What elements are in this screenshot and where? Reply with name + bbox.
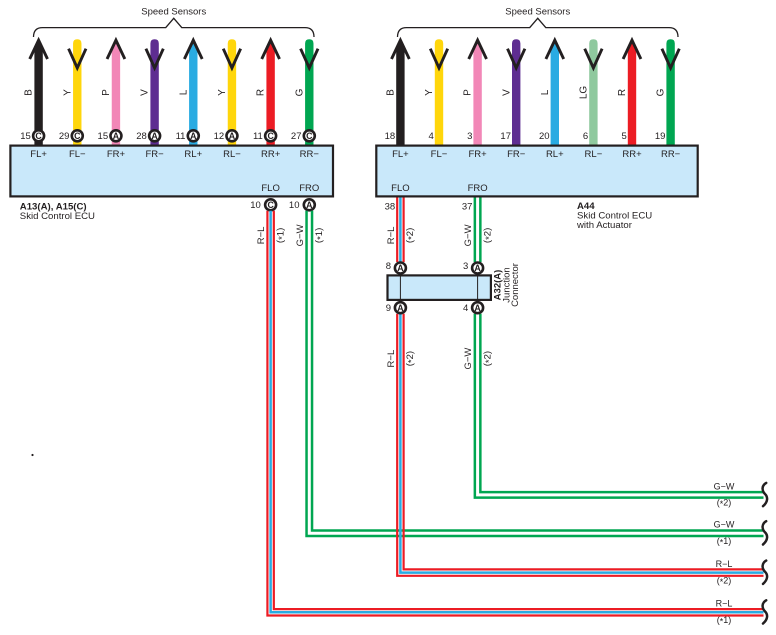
continuation squiggle at right edge of R-L (*2) wire	[763, 561, 768, 584]
svg-text:18: 18	[385, 131, 396, 142]
svg-text:G−W: G−W	[463, 224, 474, 246]
svg-text:R: R	[256, 89, 267, 96]
pin 37 right ECU FRO	[462, 201, 473, 212]
continuation squiggle at right edge of G-W (*2) wire	[763, 483, 768, 506]
svg-text:A: A	[474, 303, 481, 313]
svg-text:R−L: R−L	[256, 227, 267, 245]
wire: left speed sensor FR+ colour P	[101, 40, 125, 146]
svg-text:4: 4	[429, 131, 434, 142]
wire: right speed sensor RL+ colour L	[540, 40, 564, 146]
svg-text:28: 28	[136, 131, 147, 142]
svg-text:G: G	[656, 88, 667, 96]
pin 12(A) left ECU RL-	[214, 130, 238, 142]
svg-text:(*1): (*1)	[275, 228, 287, 243]
ECU A44 Skid Control ECU with Actuator box	[376, 146, 697, 197]
svg-text:A: A	[306, 200, 313, 210]
svg-text:RL+: RL+	[184, 149, 202, 160]
label: R-L (*2) at right edge	[716, 559, 733, 587]
svg-text:8: 8	[386, 261, 391, 272]
wire: R-L (*2) from right ECU pin 38 to junction pin 8	[397, 198, 403, 263]
svg-text:17: 17	[500, 131, 511, 142]
pin 29(C) left ECU FL-	[59, 130, 83, 142]
continuation squiggle at right edge of R-L (*1) wire	[763, 600, 768, 623]
svg-text:A: A	[190, 131, 197, 141]
svg-text:C: C	[267, 131, 274, 141]
svg-text:G−W: G−W	[714, 520, 735, 530]
label: G-W (*2) lower wire	[463, 348, 494, 370]
svg-text:FR−: FR−	[146, 149, 165, 160]
svg-text:FL−: FL−	[431, 149, 448, 160]
wire: right speed sensor FR- colour V	[501, 39, 525, 146]
svg-text:9: 9	[386, 303, 391, 314]
label: R-L (*1) on left FLO wire	[256, 227, 287, 245]
svg-text:FR+: FR+	[468, 149, 487, 160]
svg-text:(*2): (*2)	[717, 498, 732, 509]
continuation squiggle at right edge of G-W (*1) wire	[763, 521, 768, 544]
wire: left speed sensor FL- colour Y	[62, 39, 86, 146]
svg-text:4: 4	[463, 303, 468, 314]
pin 9(A) junction bottom left	[386, 302, 406, 314]
svg-text:A: A	[474, 263, 481, 273]
wire: right speed sensor FR+ colour P	[463, 40, 487, 146]
svg-text:R−L: R−L	[386, 227, 397, 245]
svg-text:FRO: FRO	[468, 183, 488, 194]
label: A32(A) Junction Connector	[493, 263, 522, 307]
wire: left speed sensor FR- colour V	[140, 39, 164, 146]
svg-text:R−L: R−L	[716, 559, 733, 569]
wire: G-W (*2) from right ECU pin 37 to junction pin 3	[475, 198, 481, 263]
pin 3(A) junction top right	[463, 261, 483, 274]
svg-text:RR−: RR−	[661, 149, 681, 160]
svg-text:V: V	[501, 89, 512, 96]
svg-text:10: 10	[289, 200, 300, 211]
pin 4(A) junction bottom right	[463, 302, 483, 314]
svg-text:G−W: G−W	[463, 348, 474, 370]
wire: right speed sensor FL- colour Y	[424, 39, 448, 146]
svg-text:3: 3	[467, 131, 472, 142]
svg-text:Y: Y	[424, 89, 435, 96]
stray dot (period) left margin	[31, 454, 33, 456]
svg-text:Y: Y	[217, 89, 228, 96]
pin 8(A) junction top left	[386, 261, 406, 274]
label: A13(A), A15(C) Skid Control ECU	[20, 201, 95, 222]
pin 28(A) left ECU FR-	[136, 130, 160, 142]
wire: left speed sensor RR+ colour R	[256, 40, 280, 146]
wire: left speed sensor RL- colour Y	[217, 39, 241, 146]
svg-text:A: A	[151, 131, 158, 141]
svg-text:(*2): (*2)	[717, 575, 732, 586]
svg-text:B: B	[386, 89, 397, 96]
svg-text:20: 20	[539, 131, 550, 142]
svg-text:(*1): (*1)	[314, 228, 326, 243]
svg-text:RR−: RR−	[300, 149, 320, 160]
svg-text:Speed Sensors: Speed Sensors	[505, 7, 570, 18]
pin 20 right ECU RL+	[539, 131, 550, 142]
svg-text:C: C	[306, 131, 313, 141]
wire: right speed sensor RL- colour LG	[579, 39, 603, 146]
brace: right Speed Sensors group label	[398, 7, 679, 38]
svg-text:11: 11	[253, 131, 263, 142]
brace: left Speed Sensors group label	[34, 7, 315, 38]
svg-text:G−W: G−W	[295, 224, 306, 246]
svg-text:FRO: FRO	[299, 183, 319, 194]
svg-text:R−L: R−L	[386, 350, 397, 368]
svg-text:A: A	[113, 131, 120, 141]
svg-text:G−W: G−W	[714, 481, 735, 491]
svg-text:P: P	[101, 89, 112, 96]
svg-text:10: 10	[250, 200, 261, 211]
wire: G-W (*2) from junction pin 4 to right edge	[475, 314, 764, 498]
svg-text:FL+: FL+	[30, 149, 47, 160]
label: R-L (*1) at right edge	[716, 599, 733, 627]
svg-text:with Actuator: with Actuator	[576, 220, 633, 231]
svg-text:15: 15	[20, 131, 31, 142]
svg-text:RR+: RR+	[622, 149, 642, 160]
label: R-L (*2) lower wire	[386, 350, 417, 368]
svg-text:FL−: FL−	[69, 149, 86, 160]
svg-text:15: 15	[98, 131, 109, 142]
svg-text:Y: Y	[62, 89, 73, 96]
svg-text:(*2): (*2)	[482, 228, 494, 243]
svg-text:L: L	[178, 89, 189, 95]
pin 11(A) left ECU RL+	[176, 130, 199, 142]
svg-text:R−L: R−L	[716, 599, 733, 609]
svg-text:C: C	[74, 131, 81, 141]
svg-text:5: 5	[622, 131, 627, 142]
pin 10(A) left ECU FRO	[289, 199, 315, 211]
svg-text:G: G	[294, 88, 305, 96]
svg-text:37: 37	[462, 201, 473, 212]
svg-text:RL−: RL−	[223, 149, 241, 160]
label: A44 Skid Control ECU with Actuator	[576, 201, 652, 231]
pin 19 right ECU RR-	[655, 131, 666, 142]
svg-text:RL+: RL+	[546, 149, 564, 160]
wire: right speed sensor RR- colour G	[656, 39, 680, 146]
pin 38 right ECU FLO	[385, 201, 396, 212]
svg-text:A: A	[397, 303, 404, 313]
svg-text:RR+: RR+	[261, 149, 281, 160]
svg-text:6: 6	[583, 131, 588, 142]
svg-text:FR−: FR−	[507, 149, 526, 160]
svg-text:Speed Sensors: Speed Sensors	[141, 7, 206, 18]
svg-text:B: B	[24, 89, 35, 96]
svg-text:A: A	[397, 263, 404, 273]
svg-text:11: 11	[176, 131, 186, 142]
svg-text:R: R	[617, 89, 628, 96]
svg-text:(*1): (*1)	[717, 536, 732, 547]
svg-text:19: 19	[655, 131, 666, 142]
svg-text:3: 3	[463, 261, 468, 272]
svg-text:FLO: FLO	[261, 183, 279, 194]
label: G-W (*1) at right edge	[714, 520, 735, 548]
pin 15(A) left ECU FR+	[98, 130, 122, 142]
wire: R-L (*2) from junction pin 9 to right edge	[397, 314, 763, 576]
svg-text:L: L	[540, 89, 551, 95]
wire: right speed sensor RR+ colour R	[617, 40, 641, 146]
svg-text:12: 12	[214, 131, 225, 142]
svg-text:RL−: RL−	[585, 149, 603, 160]
pin 6 right ECU RL-	[583, 131, 588, 142]
wire: left speed sensor FL+ colour B	[24, 40, 48, 146]
svg-text:LG: LG	[579, 86, 590, 100]
wire: left speed sensor RR- colour G	[294, 39, 318, 146]
svg-text:(*2): (*2)	[405, 351, 417, 366]
svg-text:FR+: FR+	[107, 149, 126, 160]
label: G-W (*2) at right edge	[714, 481, 735, 509]
svg-text:Connector: Connector	[510, 263, 521, 307]
svg-text:P: P	[463, 89, 474, 96]
svg-text:A: A	[229, 131, 236, 141]
svg-text:(*2): (*2)	[405, 228, 417, 243]
wire: G-W (*1) from left ECU FRO pin 10(A) to right edge	[307, 211, 764, 536]
svg-text:C: C	[267, 200, 274, 210]
svg-text:38: 38	[385, 201, 396, 212]
svg-text:Skid Control ECU: Skid Control ECU	[20, 211, 95, 222]
wire: right speed sensor FL+ colour B	[386, 40, 410, 146]
wire: R-L (*1) from left ECU FLO pin 10(C) to right edge	[267, 211, 763, 616]
pin 15(C) left ECU FL+	[20, 130, 44, 142]
label: G-W (*2) upper right wire	[463, 224, 494, 246]
svg-text:FL+: FL+	[392, 149, 409, 160]
label: G-W (*1) on left FRO wire	[295, 224, 326, 246]
svg-text:FLO: FLO	[391, 183, 409, 194]
pin 18 right ECU FL+	[385, 131, 396, 142]
label: R-L (*2) upper right wire	[386, 227, 417, 245]
pin 11(C) left ECU RR+	[253, 130, 276, 142]
pin 3 right ECU FR+	[467, 131, 472, 142]
svg-text:29: 29	[59, 131, 70, 142]
svg-text:27: 27	[291, 131, 302, 142]
pin 17 right ECU FR-	[500, 131, 511, 142]
ECU A13(A)/A15(C) Skid Control ECU box	[10, 146, 333, 197]
pin 10(C) left ECU FLO	[250, 199, 276, 211]
svg-text:C: C	[35, 131, 42, 141]
svg-text:(*1): (*1)	[717, 615, 732, 626]
pin 4 right ECU FL-	[429, 131, 434, 142]
svg-text:(*2): (*2)	[482, 351, 494, 366]
wire: left speed sensor RL+ colour L	[178, 40, 202, 146]
pin 27(C) left ECU RR-	[291, 130, 315, 142]
pin 5 right ECU RR+	[622, 131, 627, 142]
svg-text:V: V	[140, 89, 151, 96]
junction connector A32(A) box	[388, 275, 491, 300]
